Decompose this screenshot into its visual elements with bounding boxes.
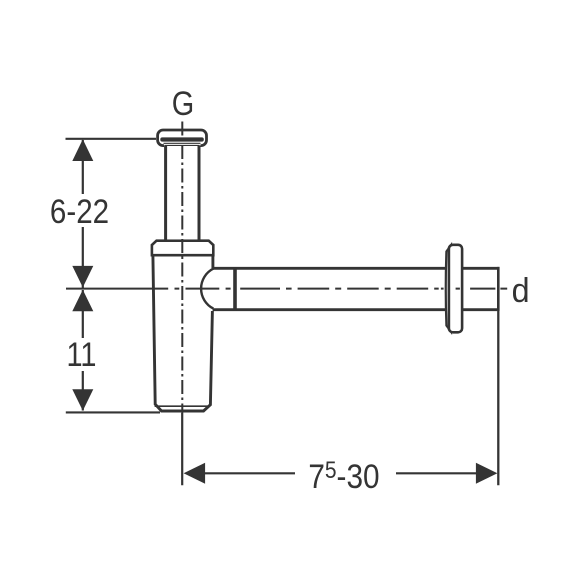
- arrow up tip below center line: [72, 290, 93, 312]
- trap body outline left/bottom/right-lower: [153, 255, 213, 411]
- outlet pipe top and bottom edges: [213, 268, 497, 309]
- elbow joint line: [233, 267, 237, 311]
- elbow ball joint arc: [201, 269, 213, 309]
- cap nut: [158, 130, 207, 146]
- extension line bottom left (body bottom level): [66, 411, 160, 413]
- trap body fill: [153, 256, 213, 411]
- inlet pipe fill: [164, 144, 201, 239]
- svg-text:G: G: [172, 84, 194, 123]
- flange face: [449, 245, 462, 332]
- svg-text:11: 11: [67, 335, 97, 374]
- dimension line 6-22 vertical: [82, 140, 84, 288]
- svg-text:75-30: 75-30: [308, 457, 379, 496]
- pipe end cap line: [497, 267, 500, 311]
- dimension line 11 vertical: [82, 290, 84, 411]
- extension line top left (cap top level): [66, 138, 157, 140]
- inlet pipe walls: [166, 146, 199, 241]
- trap body inner bottom line: [155, 405, 210, 407]
- arrow down tip at bottom extension: [72, 389, 93, 411]
- thread lines: [164, 143, 201, 145]
- arrow right bottom dimension: [476, 463, 498, 484]
- extension line below trap center: [181, 413, 183, 485]
- dimension line 75-30 horizontal: [204, 472, 477, 474]
- svg-text:6-22: 6-22: [50, 192, 109, 230]
- thread band dark: [160, 137, 204, 141]
- extension line right (pipe end down): [497, 267, 499, 485]
- horizontal centerline dash-dot: [66, 288, 507, 290]
- arrow up tip at top extension: [72, 139, 93, 161]
- flange rim: [446, 245, 451, 332]
- arrow left bottom dimension: [184, 463, 206, 484]
- outlet pipe body fill: [213, 268, 497, 309]
- arrow down tip at center line: [72, 266, 93, 288]
- svg-text:d: d: [512, 272, 530, 310]
- trap body right wall upper: [211, 255, 214, 268]
- collar: [152, 241, 213, 256]
- vertical centerline dash-dot: [181, 122, 183, 414]
